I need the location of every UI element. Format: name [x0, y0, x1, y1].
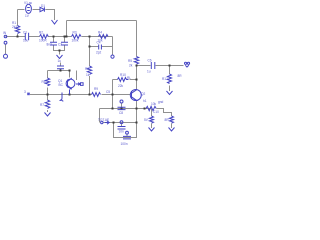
svg-text:C5: C5 [106, 90, 110, 94]
svg-text:2k2: 2k2 [12, 25, 17, 29]
svg-text:R3: R3 [73, 31, 77, 35]
svg-text:D1: D1 [41, 4, 45, 8]
svg-text:gnd: gnd [158, 100, 164, 104]
svg-text:1k: 1k [86, 73, 90, 77]
svg-text:C10: C10 [153, 110, 159, 114]
svg-text:100n: 100n [121, 142, 128, 146]
svg-text:3: 3 [24, 90, 26, 94]
svg-text:Q2: Q2 [141, 92, 145, 96]
svg-text:C4: C4 [97, 41, 101, 45]
svg-text:TOT.AE: TOT.AE [98, 118, 109, 122]
svg-text:RL: RL [127, 76, 131, 80]
svg-text:R10: R10 [120, 73, 126, 77]
svg-text:22k: 22k [118, 84, 124, 88]
svg-text:2k: 2k [129, 64, 133, 68]
svg-text:R8: R8 [85, 67, 89, 71]
svg-text:C6: C6 [148, 59, 152, 63]
svg-text:10u: 10u [23, 39, 29, 43]
svg-text:C1: C1 [23, 31, 27, 35]
svg-text:C3: C3 [58, 43, 62, 47]
svg-text:R5: R5 [128, 59, 132, 63]
svg-text:BC: BC [59, 83, 64, 87]
svg-text:2p2: 2p2 [96, 51, 102, 55]
svg-text:V1 ac: V1 ac [24, 1, 33, 5]
svg-text:8R: 8R [165, 118, 170, 122]
svg-text:1u: 1u [58, 59, 62, 63]
svg-text:h1: h1 [143, 99, 147, 103]
svg-text:10n: 10n [119, 130, 125, 134]
svg-text:100k: 100k [72, 39, 79, 43]
svg-text:10k: 10k [151, 102, 157, 106]
svg-text:R7: R7 [40, 103, 44, 107]
svg-text:R9: R9 [94, 87, 98, 91]
svg-text:C8: C8 [119, 111, 123, 115]
svg-text:R6: R6 [42, 80, 46, 84]
svg-text:R2: R2 [39, 31, 43, 35]
svg-text:8R: 8R [178, 74, 183, 78]
svg-text:8n2: 8n2 [47, 43, 53, 47]
svg-text:R12: R12 [162, 77, 168, 81]
svg-text:1u: 1u [147, 70, 151, 74]
svg-text:R4: R4 [98, 31, 102, 35]
